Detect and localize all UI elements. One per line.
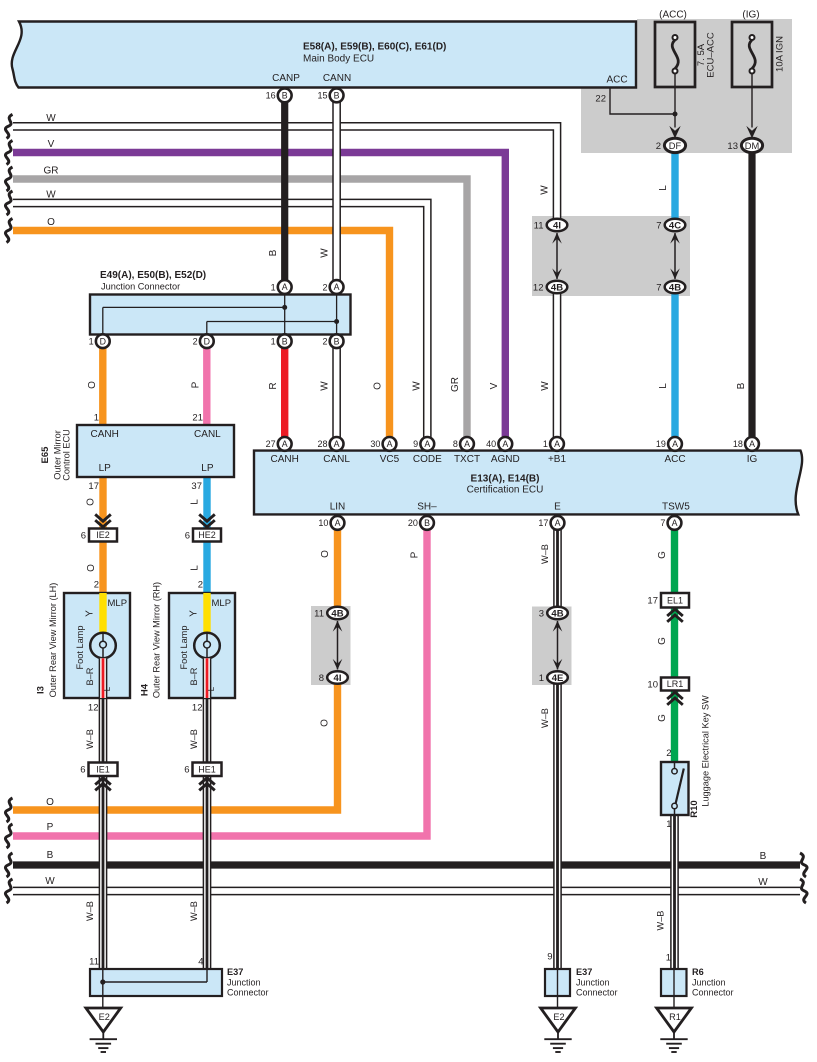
svg-text:E49(A), E50(B), E52(D): E49(A), E50(B), E52(D) xyxy=(100,270,206,281)
svg-text:A: A xyxy=(282,439,288,449)
svg-text:13: 13 xyxy=(727,141,738,152)
svg-text:17: 17 xyxy=(88,481,99,492)
svg-text:1: 1 xyxy=(543,439,548,449)
svg-text:E2: E2 xyxy=(553,1012,564,1022)
svg-text:22: 22 xyxy=(595,94,606,105)
svg-text:B: B xyxy=(334,91,340,101)
svg-text:L: L xyxy=(190,499,201,505)
svg-text:37: 37 xyxy=(191,481,202,492)
svg-text:LP: LP xyxy=(201,463,214,474)
svg-text:G: G xyxy=(657,551,668,559)
svg-text:12: 12 xyxy=(533,282,544,293)
svg-text:W: W xyxy=(320,381,331,391)
svg-text:CANH: CANH xyxy=(271,454,299,465)
svg-text:W: W xyxy=(540,185,551,195)
svg-text:B: B xyxy=(760,851,767,862)
svg-text:17: 17 xyxy=(538,518,548,528)
svg-text:CANP: CANP xyxy=(272,73,300,84)
svg-text:A: A xyxy=(334,282,340,292)
svg-text:O: O xyxy=(320,550,331,558)
svg-text:G: G xyxy=(657,714,668,722)
svg-text:IE1: IE1 xyxy=(96,764,110,774)
svg-text:Junction: Junction xyxy=(227,978,261,988)
svg-text:Foot Lamp: Foot Lamp xyxy=(75,626,85,670)
svg-text:2: 2 xyxy=(322,337,327,347)
svg-text:A: A xyxy=(672,439,678,449)
svg-text:20: 20 xyxy=(408,518,418,528)
svg-text:2: 2 xyxy=(322,282,327,292)
svg-text:LP: LP xyxy=(99,463,112,474)
svg-text:Junction: Junction xyxy=(576,978,610,988)
svg-text:19: 19 xyxy=(656,439,666,449)
svg-text:V: V xyxy=(48,139,55,150)
svg-text:E58(A), E59(B), E60(C), E61(D): E58(A), E59(B), E60(C), E61(D) xyxy=(303,42,446,53)
svg-text:B: B xyxy=(268,249,279,256)
svg-text:L: L xyxy=(190,565,201,571)
svg-text:17: 17 xyxy=(647,596,658,607)
svg-text:W: W xyxy=(758,877,768,888)
svg-text:40: 40 xyxy=(486,439,496,449)
svg-text:TSW5: TSW5 xyxy=(662,502,690,513)
svg-text:30: 30 xyxy=(370,439,380,449)
svg-text:(ACC): (ACC) xyxy=(659,10,687,21)
svg-text:W–B: W–B xyxy=(656,911,666,931)
svg-text:11: 11 xyxy=(89,957,99,968)
svg-text:A: A xyxy=(424,439,430,449)
svg-text:11: 11 xyxy=(314,608,324,619)
svg-text:MLP: MLP xyxy=(212,598,232,609)
svg-text:ACC: ACC xyxy=(664,454,685,465)
svg-text:W: W xyxy=(540,381,551,391)
svg-text:1: 1 xyxy=(271,282,276,292)
svg-text:6: 6 xyxy=(184,765,189,776)
svg-text:W–B: W–B xyxy=(189,729,199,749)
svg-text:B–R: B–R xyxy=(189,667,199,685)
svg-text:E37: E37 xyxy=(227,967,243,977)
svg-text:VC5: VC5 xyxy=(380,454,400,465)
svg-text:W: W xyxy=(320,248,331,258)
svg-text:Outer Rear View Mirror (LH): Outer Rear View Mirror (LH) xyxy=(48,583,58,698)
svg-text:LIN: LIN xyxy=(330,502,346,513)
svg-text:4B: 4B xyxy=(551,282,563,293)
svg-text:I3: I3 xyxy=(36,686,47,694)
svg-text:B: B xyxy=(282,91,288,101)
svg-text:Outer Rear View Mirror (RH): Outer Rear View Mirror (RH) xyxy=(152,582,162,698)
svg-text:12: 12 xyxy=(192,703,203,714)
svg-text:7: 7 xyxy=(656,220,661,231)
svg-text:L: L xyxy=(103,686,112,691)
svg-text:P: P xyxy=(410,551,421,558)
svg-text:9: 9 xyxy=(413,439,418,449)
svg-text:(IG): (IG) xyxy=(742,10,759,21)
svg-text:EL1: EL1 xyxy=(667,595,683,605)
svg-text:6: 6 xyxy=(81,530,86,541)
svg-text:R1: R1 xyxy=(669,1012,681,1022)
svg-text:A: A xyxy=(387,439,393,449)
svg-text:Y: Y xyxy=(189,610,200,617)
svg-text:2: 2 xyxy=(656,141,661,152)
svg-text:MLP: MLP xyxy=(108,598,128,609)
svg-text:O: O xyxy=(87,381,98,389)
svg-text:Certification ECU: Certification ECU xyxy=(467,485,544,496)
svg-text:HE2: HE2 xyxy=(198,530,216,540)
svg-text:Connector: Connector xyxy=(227,988,269,998)
svg-text:GR: GR xyxy=(44,166,59,177)
svg-text:V: V xyxy=(489,382,500,389)
svg-text:Junction Connector: Junction Connector xyxy=(101,282,180,292)
svg-text:7: 7 xyxy=(660,518,665,528)
svg-text:IE2: IE2 xyxy=(96,530,110,540)
svg-text:A: A xyxy=(335,518,341,528)
svg-text:B: B xyxy=(47,850,54,861)
svg-text:W–B: W–B xyxy=(540,708,550,728)
svg-text:R: R xyxy=(268,382,279,389)
svg-text:G: G xyxy=(657,637,668,645)
svg-text:W–B: W–B xyxy=(85,729,95,749)
svg-text:9: 9 xyxy=(547,952,552,963)
svg-text:D: D xyxy=(204,336,210,346)
svg-text:12: 12 xyxy=(88,703,99,714)
svg-text:1: 1 xyxy=(94,413,99,424)
svg-text:H4: H4 xyxy=(140,683,151,696)
svg-text:6: 6 xyxy=(185,530,190,541)
svg-text:A: A xyxy=(555,518,561,528)
svg-text:Foot Lamp: Foot Lamp xyxy=(179,626,189,670)
svg-text:A: A xyxy=(672,518,678,528)
svg-text:27: 27 xyxy=(266,439,276,449)
svg-text:A: A xyxy=(334,439,340,449)
svg-text:11: 11 xyxy=(534,220,544,231)
svg-text:10: 10 xyxy=(318,518,328,528)
svg-text:W–B: W–B xyxy=(540,544,550,564)
svg-text:CANL: CANL xyxy=(323,454,350,465)
svg-text:18: 18 xyxy=(733,439,743,449)
svg-text:ACC: ACC xyxy=(606,75,627,86)
svg-text:1: 1 xyxy=(539,673,544,684)
svg-text:P: P xyxy=(191,381,202,388)
svg-text:IG: IG xyxy=(747,454,758,465)
svg-text:4B: 4B xyxy=(331,608,343,619)
svg-text:4I: 4I xyxy=(553,220,561,231)
svg-text:DF: DF xyxy=(669,141,682,151)
svg-text:4I: 4I xyxy=(334,673,342,684)
svg-text:1: 1 xyxy=(89,337,94,347)
svg-text:B: B xyxy=(282,336,288,346)
svg-text:E65: E65 xyxy=(40,446,51,464)
svg-text:Luggage Electrical Key SW: Luggage Electrical Key SW xyxy=(701,695,711,807)
svg-text:E: E xyxy=(554,502,561,513)
svg-text:CANN: CANN xyxy=(323,73,351,84)
svg-text:2: 2 xyxy=(193,337,198,347)
svg-text:10A IGN: 10A IGN xyxy=(775,36,786,72)
svg-text:AGND: AGND xyxy=(491,454,520,465)
svg-text:1: 1 xyxy=(666,953,671,964)
svg-text:1: 1 xyxy=(666,819,671,830)
svg-text:L: L xyxy=(658,185,669,191)
svg-text:4B: 4B xyxy=(669,282,681,293)
svg-text:Connector: Connector xyxy=(576,988,618,998)
svg-text:Control ECU: Control ECU xyxy=(62,429,72,481)
svg-text:E37: E37 xyxy=(576,967,592,977)
svg-text:DM: DM xyxy=(745,141,759,151)
svg-text:16: 16 xyxy=(266,91,276,101)
svg-text:1: 1 xyxy=(271,337,276,347)
svg-text:E13(A), E14(B): E13(A), E14(B) xyxy=(471,474,540,485)
svg-text:SH–: SH– xyxy=(417,502,437,513)
svg-text:8: 8 xyxy=(319,673,324,684)
svg-text:7: 7 xyxy=(656,282,661,293)
svg-text:2: 2 xyxy=(94,580,99,591)
svg-text:Connector: Connector xyxy=(692,988,734,998)
svg-text:D: D xyxy=(100,336,106,346)
svg-text:8: 8 xyxy=(453,439,458,449)
svg-text:ECU–ACC: ECU–ACC xyxy=(706,32,717,78)
svg-text:B: B xyxy=(736,382,747,389)
svg-text:A: A xyxy=(502,439,508,449)
svg-text:P: P xyxy=(47,822,54,833)
svg-text:2: 2 xyxy=(666,748,671,759)
svg-text:10: 10 xyxy=(647,679,658,690)
svg-text:+B1: +B1 xyxy=(548,454,567,465)
svg-text:O: O xyxy=(320,719,331,727)
svg-text:CANL: CANL xyxy=(194,429,221,440)
svg-text:Y: Y xyxy=(85,610,96,617)
svg-text:15: 15 xyxy=(317,91,327,101)
svg-text:W: W xyxy=(46,190,56,201)
svg-text:Main Body ECU: Main Body ECU xyxy=(303,54,374,65)
svg-text:B: B xyxy=(334,336,340,346)
svg-text:W: W xyxy=(45,876,55,887)
svg-text:B–R: B–R xyxy=(85,667,95,685)
svg-text:4C: 4C xyxy=(669,220,681,231)
svg-text:O: O xyxy=(86,498,97,506)
svg-text:4E: 4E xyxy=(552,673,564,684)
svg-text:2: 2 xyxy=(198,580,203,591)
svg-text:B: B xyxy=(424,518,430,528)
svg-text:28: 28 xyxy=(317,439,327,449)
svg-text:O: O xyxy=(86,564,97,572)
svg-text:A: A xyxy=(464,439,470,449)
svg-text:O: O xyxy=(46,797,54,808)
svg-text:CODE: CODE xyxy=(413,454,442,465)
svg-text:LR1: LR1 xyxy=(667,679,684,689)
svg-text:L: L xyxy=(207,686,216,691)
svg-text:HE1: HE1 xyxy=(198,764,216,774)
svg-text:3: 3 xyxy=(539,608,544,619)
svg-text:R10: R10 xyxy=(689,800,700,817)
svg-text:W–B: W–B xyxy=(85,901,95,921)
svg-text:E2: E2 xyxy=(99,1012,110,1022)
svg-text:A: A xyxy=(282,282,288,292)
svg-text:CANH: CANH xyxy=(91,429,119,440)
svg-text:4: 4 xyxy=(198,957,203,968)
svg-text:4B: 4B xyxy=(551,608,563,619)
svg-text:6: 6 xyxy=(80,765,85,776)
svg-text:GR: GR xyxy=(450,377,461,392)
svg-text:L: L xyxy=(658,383,669,389)
svg-text:21: 21 xyxy=(192,413,203,424)
svg-text:O: O xyxy=(373,382,384,390)
svg-text:Junction: Junction xyxy=(692,978,726,988)
svg-text:A: A xyxy=(749,439,755,449)
svg-text:O: O xyxy=(47,217,55,228)
svg-text:W: W xyxy=(412,381,423,391)
svg-text:TXCT: TXCT xyxy=(454,454,480,465)
svg-text:W: W xyxy=(46,113,56,124)
svg-text:A: A xyxy=(554,439,560,449)
svg-text:R6: R6 xyxy=(692,967,704,977)
svg-text:W–B: W–B xyxy=(189,901,199,921)
